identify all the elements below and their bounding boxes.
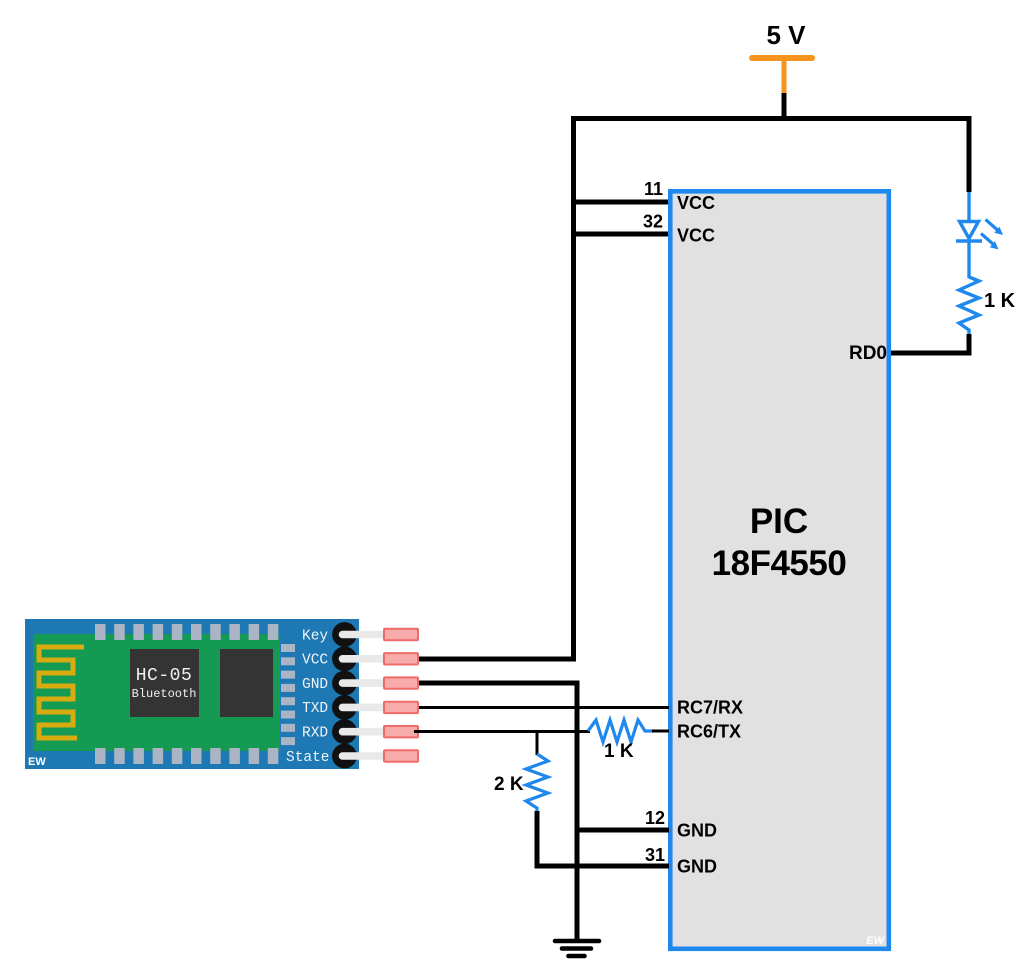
HC-05 bottom castellation pads [95,748,278,764]
wire resistor to RD0 [891,334,969,353]
svg-text:31: 31 [645,845,665,865]
wire 2K to GND pin 31 [537,811,669,866]
LED D1 [956,192,1003,278]
wire VCC pin 11 branch [571,200,669,205]
HC-05 top castellation pads [95,624,278,640]
wire HC-05 RXD to 1K resistor [415,730,590,733]
header pin VCC [332,646,418,671]
ground symbol [555,941,599,956]
wire HC-05 GND to ground rail [419,683,577,941]
svg-text:VCC: VCC [677,226,715,246]
power symbol 5V (orange bar) [752,58,812,95]
svg-text:EW: EW [28,756,46,768]
svg-text:11: 11 [644,179,663,199]
svg-text:State: State [286,750,330,766]
wire VCC net: HC-05 VCC to left vertical, top rail, right vertical [419,119,969,660]
resistor 1K (RXD series) [588,720,653,742]
svg-text:GND: GND [302,677,328,693]
PIC microcontroller U1 box [670,191,889,949]
wire RXD tap down to 2K [536,732,539,756]
header pin TXD [332,695,418,720]
HC-05 chip 2 [220,649,273,717]
svg-text:18F4550: 18F4550 [712,544,847,583]
header pin Key [332,622,418,647]
svg-text:RD0: RD0 [849,343,887,364]
wire GND pin 12 branch [577,828,669,833]
resistor 2K pulldown [526,754,548,813]
svg-text:RXD: RXD [302,726,328,742]
svg-text:RC7/RX: RC7/RX [677,698,743,718]
HC-05 chip (labelled) [130,649,199,717]
svg-text:32: 32 [643,212,663,232]
resistor 1K (LED series) [959,277,979,335]
svg-text:2 K: 2 K [494,774,524,795]
wire 1K to RC6/TX [652,730,669,733]
svg-text:TXD: TXD [302,701,328,717]
svg-text:Bluetooth: Bluetooth [132,687,197,701]
HC-05 antenna trace [39,647,84,738]
HC-05 bluetooth module board [25,619,359,769]
wire RXD overlap on pad [414,730,422,733]
HC-05 right edge pads [281,644,295,745]
wire VCC pin 32 branch [571,232,669,237]
svg-text:VCC: VCC [677,193,715,213]
svg-text:GND: GND [677,821,717,841]
header pin State [332,744,418,769]
wire 5V stub to rail [782,93,787,120]
svg-text:1 K: 1 K [604,741,634,762]
header pin RXD [332,719,418,744]
header pin GND [332,671,418,696]
svg-text:VCC: VCC [302,653,328,669]
svg-text:HC-05: HC-05 [136,666,193,686]
svg-text:RC6/TX: RC6/TX [677,722,741,742]
wire HC-05 TXD to RC7/RX [419,706,669,709]
svg-text:PIC: PIC [750,502,808,541]
svg-text:5 V: 5 V [766,20,806,50]
svg-text:EW: EW [866,935,885,947]
svg-text:12: 12 [645,808,665,828]
svg-text:GND: GND [677,857,717,877]
svg-text:1 K: 1 K [984,290,1016,312]
svg-text:Key: Key [302,628,328,644]
